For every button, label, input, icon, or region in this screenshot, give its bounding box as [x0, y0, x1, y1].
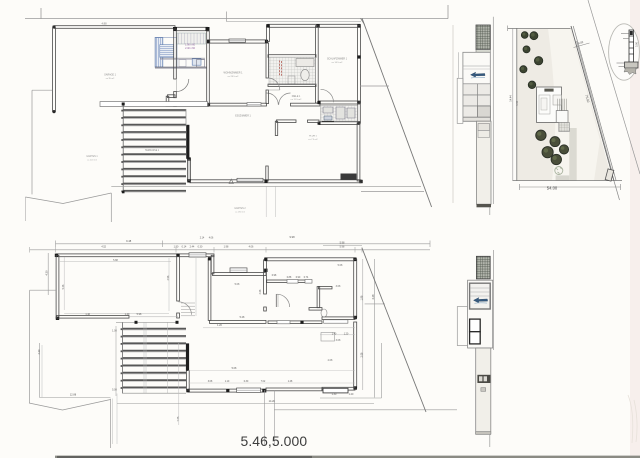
deck top dim line lower [116, 321, 177, 323]
bathroom fixtures [296, 59, 314, 67]
svg-text:2.14: 2.14 [200, 238, 205, 240]
diagonal boundary upper plan [362, 18, 432, 207]
svg-text:3.08: 3.08 [336, 285, 341, 288]
hall south wall east [291, 103, 321, 106]
dim line bottom left [40, 397, 111, 399]
dim vertical right 1 [362, 259, 364, 390]
strip main box [463, 52, 490, 121]
perpendicular dim tick NN [574, 43, 590, 48]
post NW lower [55, 254, 58, 257]
lower floor plan group [29, 235, 457, 448]
wall stub south [266, 166, 268, 181]
dim line left outer [47, 253, 49, 295]
west wall family lower [186, 371, 189, 391]
south wall kitchen block [166, 103, 209, 106]
post kitchen NW [173, 27, 177, 31]
svg-text:5.08: 5.08 [338, 264, 343, 267]
deck inner dim lines lower [143, 323, 145, 394]
svg-text:5.98: 5.98 [137, 313, 142, 316]
svg-text:0.30: 0.30 [244, 381, 249, 383]
dim line 54.00 [520, 186, 621, 188]
dim chain mid lower [203, 327, 355, 329]
fence post [629, 30, 634, 62]
stair block east wall [208, 259, 211, 321]
stair marks lower block [181, 303, 195, 316]
post footing [625, 62, 639, 68]
door gap kitchen [175, 79, 177, 92]
svg-text:1.30: 1.30 [332, 393, 337, 396]
svg-text:ca 11.5 m2: ca 11.5 m2 [291, 99, 302, 101]
svg-text:5.46,5.000: 5.46,5.000 [241, 433, 308, 449]
vanity fixtures lower [321, 333, 335, 342]
door arc kitchen [176, 79, 189, 92]
svg-text:0.30: 0.30 [198, 246, 203, 249]
post east wall y123 [358, 121, 361, 124]
svg-text:TERRASSE 1: TERRASSE 1 [145, 149, 160, 152]
svg-text:5.98: 5.98 [340, 246, 345, 249]
guide tick left [40, 8, 42, 19]
svg-text:4.06: 4.06 [209, 238, 214, 240]
north wall east lower plan [265, 258, 355, 261]
strip2 main box [468, 280, 493, 348]
interior wall vertical [317, 287, 320, 308]
window north stair block [189, 253, 206, 257]
ground line 2 [361, 191, 424, 193]
interior wall horizontal [318, 287, 332, 289]
central room south wall [210, 320, 267, 323]
garden west lower vertical [24, 197, 26, 221]
leader lines [617, 34, 630, 67]
site left boundary [516, 28, 518, 180]
guide tick right [447, 5, 449, 19]
family wall stub vertical [275, 121, 277, 135]
wall kitchen/living [207, 31, 210, 104]
bottom scan artifact strip [55, 456, 640, 458]
diagonal tick top [361, 18, 365, 24]
svg-text:5.38: 5.38 [62, 284, 65, 289]
window south lower [237, 388, 261, 392]
kitchen north wall [175, 27, 208, 30]
north wall east segment [268, 24, 360, 27]
post west wall family top [187, 157, 190, 160]
south wall main [190, 180, 361, 183]
svg-text:4.06: 4.06 [249, 246, 254, 249]
sparse light tree [555, 167, 563, 175]
post west wall bottom [52, 110, 55, 113]
room1 inner dim bottom [64, 313, 169, 315]
kitchen sink fixtures [192, 59, 201, 65]
svg-text:5.88: 5.88 [113, 259, 118, 262]
svg-text:2.40 x 60: 2.40 x 60 [185, 47, 196, 50]
kitchen upper cabinet band [177, 33, 206, 44]
post bedroom SW [317, 101, 320, 104]
south wall bottom-right room [322, 387, 355, 390]
svg-text:4.98: 4.98 [167, 275, 170, 280]
kitchen island blue hatch [160, 45, 174, 58]
line to diagonal lower [365, 303, 385, 305]
svg-text:2.44: 2.44 [190, 246, 195, 249]
east wall bath band [358, 103, 361, 123]
svg-text:9.48: 9.48 [126, 239, 132, 243]
driveway strip [569, 128, 576, 181]
post east wall middle [357, 55, 360, 58]
svg-text:GARAGE 1: GARAGE 1 [104, 74, 116, 77]
guide line top [25, 18, 448, 20]
north wall west segment [54, 26, 175, 29]
svg-text:7.02: 7.02 [261, 381, 266, 383]
bath2 hatched band [321, 106, 358, 122]
svg-text:1.48: 1.48 [288, 381, 293, 383]
wall bath east [315, 26, 318, 103]
svg-text:GARTEN 1: GARTEN 1 [86, 155, 98, 158]
strip2 right guide [493, 250, 495, 350]
post south wall x266 [264, 180, 267, 183]
fold artifact line [452, 25, 454, 203]
strip left outline [457, 78, 463, 123]
east wall bedroom [358, 26, 361, 103]
room1 east wall [177, 257, 180, 302]
line to diagonal y86 [360, 85, 389, 87]
post SW room1 [56, 317, 59, 320]
svg-text:WOHNZIMMER 1: WOHNZIMMER 1 [224, 72, 244, 75]
corridor wall [309, 308, 322, 311]
family wall stub horizontal [277, 120, 297, 123]
wall stub down [166, 96, 169, 104]
post central NE [264, 269, 267, 272]
detail circle fence post [609, 24, 640, 80]
living room south wall [209, 103, 267, 106]
strip window grid [463, 84, 490, 117]
west wall family room [188, 159, 191, 182]
wall jog up at x268 [267, 26, 270, 42]
strip right guide line [492, 17, 494, 204]
svg-text:12.88: 12.88 [70, 394, 77, 397]
kitchen counter line [160, 57, 205, 59]
room1 inner dim right [168, 258, 170, 311]
deck top bar [100, 102, 208, 107]
door leaf and arc central [275, 294, 277, 307]
svg-text:5.28: 5.28 [240, 316, 245, 319]
lighter path through garden [548, 29, 600, 181]
svg-text:5.98: 5.98 [340, 242, 345, 245]
post living NW [207, 40, 210, 43]
bath north wall lower [267, 280, 310, 283]
svg-text:1.40: 1.40 [125, 313, 130, 316]
svg-text:1.20: 1.20 [344, 334, 349, 336]
window bath2 [305, 280, 312, 284]
bedroom south wall [319, 101, 360, 104]
svg-text:0.90: 0.90 [296, 277, 301, 279]
elevation strip upper [457, 17, 493, 215]
svg-text:4.40: 4.40 [516, 101, 519, 106]
hall double door arcs [267, 93, 279, 105]
west wall lower [56, 255, 59, 318]
svg-text:1.00: 1.00 [112, 330, 117, 333]
garden west vertical [31, 90, 33, 194]
post NW corner [53, 26, 56, 29]
strip2 leg [476, 348, 491, 434]
dim chain top 2 [30, 249, 430, 251]
bracket line bottom [274, 409, 457, 411]
bedroom1 lower south wall [322, 317, 355, 320]
svg-text:0.98: 0.98 [272, 275, 277, 277]
garden vertical x111 [110, 193, 112, 222]
svg-text:ca 28.5 m2: ca 28.5 m2 [228, 76, 240, 78]
strip blue arrow [471, 72, 486, 77]
dark window east part [341, 174, 357, 180]
diagonal dimension line [577, 41, 613, 173]
svg-text:4.88: 4.88 [101, 21, 107, 25]
strip leg [477, 121, 492, 204]
west wall [53, 27, 56, 112]
svg-text:1.98: 1.98 [224, 246, 229, 249]
second parallel boundary [588, 0, 640, 174]
extension line top plan 2 [275, 186, 277, 217]
post SE lower [354, 386, 357, 389]
strip2 dark band with windows [477, 375, 490, 383]
svg-text:4.30: 4.30 [38, 349, 41, 354]
faint pencil marks bottom right [628, 395, 637, 443]
trees site plan [521, 32, 528, 39]
triangle marker south wall [229, 179, 233, 183]
garden line west [32, 89, 53, 91]
east wall lower plan lower [354, 322, 357, 388]
east wall lower plan upper [354, 259, 357, 317]
wall bath north [268, 55, 316, 58]
svg-text:1.90: 1.90 [174, 246, 179, 249]
jog wall lower [211, 255, 214, 274]
main south wall lower plan [188, 389, 266, 392]
post north-east-2 [316, 24, 319, 27]
site bottom boundary [513, 180, 623, 182]
svg-text:5.08: 5.08 [235, 283, 240, 286]
window bath1 [287, 280, 298, 284]
window mid south [277, 321, 290, 324]
gate marker on boundary [605, 169, 614, 181]
svg-text:SCHLAFZIMMER 1: SCHLAFZIMMER 1 [327, 58, 348, 61]
post south wall kitchen [173, 103, 177, 107]
south wall mid continuation [268, 321, 322, 324]
svg-text:1.20: 1.20 [349, 393, 354, 396]
dim vertical right 2 [374, 259, 376, 398]
post west wall family bottom [187, 179, 190, 182]
ground line 1 [111, 185, 421, 187]
wall jog left [168, 95, 176, 98]
wall living east upper [266, 43, 269, 78]
kitchen west wall lower [174, 29, 177, 79]
living room north wall [208, 40, 268, 43]
svg-text:5.08: 5.08 [232, 367, 237, 370]
kitchen cabinets annex outline [155, 37, 177, 67]
svg-text:1.40: 1.40 [332, 334, 337, 336]
svg-text:3.08: 3.08 [208, 381, 213, 383]
site terrace hatch square [559, 122, 570, 131]
door arc bedroom [321, 89, 334, 102]
dim chain top 1 [56, 243, 431, 245]
site house [537, 87, 562, 122]
strip2 inner framed square [470, 283, 491, 309]
post north x178 [176, 254, 179, 257]
thick dark wall segment west [186, 125, 189, 159]
diagonal boundary lower plan [362, 248, 426, 412]
room1 south wall [57, 316, 130, 319]
dim top right lower [323, 245, 362, 247]
toilet lower plan [321, 309, 327, 317]
north wall lower plan [57, 254, 215, 257]
strip2 window frames dark [470, 319, 481, 332]
central room north wall [213, 273, 266, 276]
bathroom tiled floor [269, 57, 315, 85]
svg-text:0.74: 0.74 [304, 277, 309, 279]
guide line secondary [226, 20, 361, 22]
svg-text:ca 7.5 m2: ca 7.5 m2 [308, 139, 318, 141]
deck right edge upper [185, 109, 187, 126]
thick dark wall segment lower [186, 343, 189, 370]
extension line above title 1 [263, 390, 265, 446]
east wall lower room [357, 123, 360, 181]
elevation strip lower [457, 250, 493, 447]
svg-text:2.08: 2.08 [177, 416, 180, 421]
site plan group [508, 0, 640, 200]
left garden line lower [30, 289, 56, 291]
wall stub right [308, 120, 320, 122]
garden boundary polyline [25, 193, 111, 204]
strip2 left outline [457, 307, 467, 346]
upper floor plan group [25, 5, 453, 222]
stair dim line [195, 258, 197, 316]
deck left edge and ticks [122, 104, 124, 193]
small garden marks [551, 187, 553, 189]
post living NE [265, 40, 268, 43]
svg-text:ca 220 m2: ca 220 m2 [87, 159, 98, 161]
wall living east lower [266, 90, 269, 104]
svg-text:4.08: 4.08 [259, 289, 262, 294]
svg-text:FLUR 1: FLUR 1 [309, 136, 317, 138]
window south wall [237, 178, 263, 181]
wall below bath band [319, 122, 359, 125]
site top boundary [508, 27, 571, 29]
svg-text:1.20: 1.20 [217, 324, 222, 327]
svg-text:9.98: 9.98 [289, 235, 295, 239]
post living SW [207, 103, 210, 106]
svg-text:3.08: 3.08 [336, 339, 341, 342]
svg-text:5.08: 5.08 [112, 389, 117, 392]
strip2 blue arrow [474, 298, 488, 303]
deck dim vertical lower [115, 326, 117, 396]
svg-text:0.14: 0.14 [182, 246, 187, 249]
window central north [230, 268, 247, 272]
room1 south thin [129, 316, 178, 318]
bathroom red marks [280, 61, 282, 77]
svg-text:4.52: 4.52 [101, 246, 106, 249]
site plot beige fill [517, 28, 613, 180]
svg-text:DIELE 1: DIELE 1 [292, 96, 301, 98]
svg-text:2.08: 2.08 [360, 352, 363, 357]
room1 inner dim top [59, 261, 171, 263]
site house steps hatch [558, 99, 567, 111]
extension line above title 2 [273, 390, 275, 446]
wall bath south [268, 84, 316, 86]
post north-east-1 [266, 24, 269, 27]
svg-text:GARTEN 2: GARTEN 2 [234, 207, 246, 210]
svg-text:1.10: 1.10 [225, 381, 230, 383]
post kitchen NE [206, 27, 210, 31]
door arc room1 [179, 302, 192, 315]
svg-text:54.00: 54.00 [547, 185, 558, 190]
post SE corner [359, 180, 362, 183]
post deck SW [122, 191, 125, 194]
svg-text:4.30: 4.30 [45, 270, 49, 276]
strip2 crosshatch tower [476, 256, 490, 279]
dim line bottom long [117, 403, 374, 405]
svg-text:2.08: 2.08 [328, 359, 333, 362]
svg-text:ca 35 m2: ca 35 m2 [106, 78, 115, 80]
post deck NW [122, 103, 125, 106]
wall below kitchen door [174, 92, 177, 98]
post east wall at y102 [357, 101, 360, 104]
strip crosshatch tower [476, 25, 490, 50]
main diagonal boundary double line [571, 26, 614, 181]
window living south [247, 103, 261, 106]
dim line bottom right short [320, 397, 382, 399]
door arc living east [268, 78, 280, 90]
svg-text:1.10: 1.10 [85, 313, 90, 316]
svg-text:ca 180 m2: ca 180 m2 [235, 211, 246, 213]
deck bottom edge lower [123, 392, 187, 394]
svg-text:3.00: 3.00 [635, 41, 639, 47]
svg-text:ca 16.5 m2: ca 16.5 m2 [332, 62, 344, 64]
post mid south wall [300, 321, 303, 324]
kitchen counter blue hatch left [155, 38, 163, 67]
deck planks [124, 110, 187, 191]
svg-text:ESSZIMMER 1: ESSZIMMER 1 [235, 116, 251, 118]
site left dimension line [512, 28, 514, 180]
guide tick middle [226, 12, 228, 22]
window mark band wall [322, 121, 334, 123]
kitchen south wall [155, 66, 207, 68]
garden vertical x110 lower [110, 399, 112, 448]
svg-text:14.44: 14.44 [509, 95, 513, 102]
svg-text:0.88: 0.88 [287, 277, 292, 279]
post NE lower [353, 258, 356, 261]
wall x265 [264, 260, 267, 294]
window living north [229, 39, 246, 42]
extension line top plan 1 [265, 186, 267, 217]
post NE corner [357, 24, 360, 27]
